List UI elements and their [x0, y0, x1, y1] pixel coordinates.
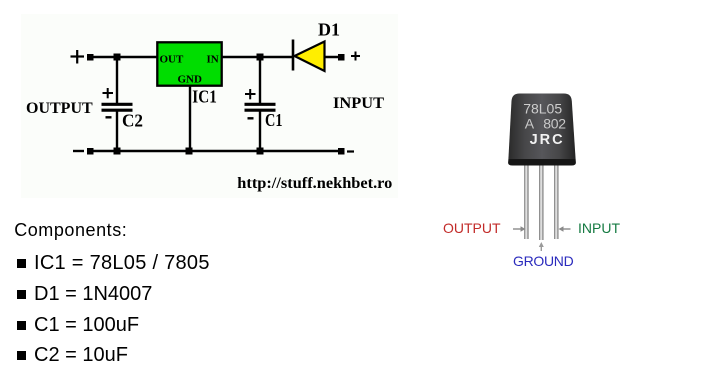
value label IC1 = 78L05 / 7805: [34, 252, 210, 275]
schematic panel: [21, 14, 398, 198]
bullet C2: [17, 351, 26, 360]
capacitor C1 plates: [245, 104, 276, 110]
components list heading: [14, 220, 127, 241]
pin 2 ground leg: [539, 166, 543, 241]
diode D1 cathode bar: [292, 40, 295, 71]
plus sign left terminal: [71, 50, 85, 64]
node junction C2 top: [114, 54, 121, 61]
bullet IC1: [17, 259, 26, 268]
minus sign left bottom terminal: [73, 150, 84, 152]
pin 3 input leg: [554, 166, 558, 240]
bullet D1: [17, 290, 26, 299]
pin 1 output leg: [524, 166, 528, 240]
wire top rail left: [90, 56, 157, 58]
capacitor C1 polarity +: [245, 89, 256, 99]
node + terminal left top: [87, 54, 94, 61]
value label C2 = 10uF: [34, 344, 128, 367]
value label C1 = 100uF: [34, 314, 139, 337]
wire top rail middle: [221, 56, 293, 58]
wire diode to terminal: [324, 56, 342, 58]
arrow to ground leg: [539, 242, 544, 251]
label OUTPUT (red): [443, 220, 501, 236]
IC1 package photo: TO-92 body (78L05 JRC): [508, 94, 575, 160]
wire C2 branch upper: [116, 57, 118, 103]
wire bottom rail: [90, 150, 341, 152]
arrow to input leg: [559, 226, 571, 231]
node junction C1 top: [257, 54, 264, 61]
node junction C2 bottom: [114, 148, 121, 155]
node junction IC1 ground bottom: [186, 148, 193, 155]
minus sign right bottom terminal: [347, 150, 354, 152]
capacitor C2 plates: [102, 104, 133, 110]
package illustration: [420, 60, 724, 290]
wire C1 branch lower: [259, 111, 261, 151]
arrow to output leg: [513, 226, 526, 231]
capacitor C2 polarity -: [106, 116, 112, 118]
plus sign right terminal: [351, 52, 360, 61]
wire C2 branch lower: [116, 111, 118, 151]
node - terminal left bottom: [87, 148, 94, 155]
value label D1 = 1N4007: [34, 283, 152, 306]
bullet C1: [17, 321, 26, 330]
node + terminal right top: [338, 54, 345, 61]
regulator IC1 body (78L05): [157, 42, 221, 85]
node junction C1 bottom: [257, 148, 264, 155]
capacitor C1 polarity -: [248, 117, 254, 119]
wire IC1 ground branch: [189, 86, 191, 151]
package bottom band: [508, 159, 576, 166]
wire C1 branch upper: [259, 57, 261, 103]
label INPUT (green): [578, 220, 620, 236]
label GROUND (blue): [513, 253, 573, 269]
diode D1 triangle: [295, 42, 325, 72]
capacitor C2 polarity +: [103, 88, 114, 98]
node - terminal right bottom: [338, 148, 345, 155]
